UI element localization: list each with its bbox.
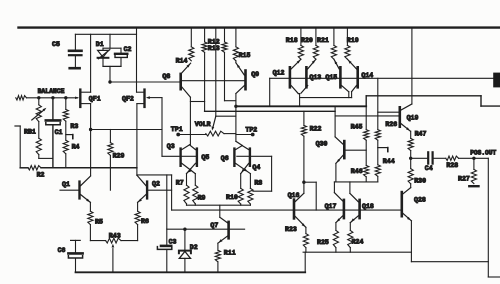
resistor R20 [315, 28, 317, 46]
wire: Q8 collector node to R12 [190, 101, 204, 103]
wire: drop to ground bus [304, 252, 306, 271]
capacitor C1 [52, 98, 54, 119]
svg-text:C5: C5 [52, 41, 60, 48]
svg-text:Q7: Q7 [210, 222, 218, 229]
resistor R3 [65, 98, 67, 110]
wire: Q2 collector lateral wire [137, 174, 172, 176]
resistor R6 [137, 202, 139, 211]
wire: Q28 emitter down and right [410, 221, 412, 262]
svg-text:R24: R24 [352, 239, 364, 246]
capacitor C4 [427, 152, 429, 163]
test point TP2 [251, 133, 255, 137]
wire: Q17 collector column [333, 182, 335, 193]
capacitor C3 [166, 229, 168, 245]
svg-text:RB1: RB1 [24, 128, 36, 135]
svg-text:R28: R28 [446, 162, 458, 169]
resistor R28 [446, 156, 459, 160]
wire: rail drop to Q19 collector [411, 28, 413, 104]
wire: Q12/Q13 collector join [298, 93, 299, 95]
svg-text:C2: C2 [124, 46, 132, 53]
svg-text:Q19: Q19 [407, 115, 419, 122]
tap mark below R3 [66, 134, 73, 136]
transistor Q9 [244, 71, 247, 90]
svg-text:R25: R25 [317, 239, 329, 246]
wire: horizontal supply branch y34 [75, 33, 136, 35]
svg-text:R30: R30 [414, 178, 426, 185]
resistor R5 [89, 202, 91, 211]
transistor Q1 [78, 182, 80, 199]
transistor QF2 [143, 90, 145, 107]
resistor R2 inline on lower-left bus [20, 167, 28, 169]
wire: Q8/Q9 base link [182, 80, 244, 82]
wire: QF1-source to QF2-gate link [91, 129, 162, 131]
svg-text:Q9: Q9 [251, 71, 259, 78]
transistor Q19 [398, 107, 401, 126]
svg-text:Q4: Q4 [252, 164, 260, 171]
svg-text:Q13: Q13 [309, 74, 321, 81]
resistor R45 [364, 130, 369, 141]
svg-text:R10: R10 [226, 194, 238, 201]
transistor Q5 [196, 149, 198, 166]
resistor R18 [300, 28, 302, 46]
wire: quad base rail to output feedback [270, 77, 494, 79]
svg-text:Q28: Q28 [414, 197, 426, 204]
wire: collector link line [300, 97, 352, 99]
svg-text:POS.OUT: POS.OUT [470, 149, 496, 156]
transistor Q12 [289, 67, 292, 87]
svg-text:R23: R23 [285, 226, 297, 233]
node: R3 tap [64, 96, 67, 99]
svg-text:R27: R27 [458, 175, 470, 182]
resistor R13 [224, 28, 226, 42]
resistor R26 [377, 78, 379, 129]
potentiometer R43 [90, 240, 105, 242]
transistor Q18 [358, 200, 361, 218]
svg-text:R6: R6 [141, 218, 149, 225]
wire: Q19 base line [335, 115, 398, 117]
svg-text:R7: R7 [176, 179, 184, 186]
svg-text:QF1: QF1 [89, 96, 101, 103]
wire: Q4 base feed from right [251, 155, 272, 157]
capacitor C6 [71, 239, 81, 241]
svg-text:D2: D2 [190, 244, 198, 251]
resistor R8 [249, 174, 251, 189]
transistor Q7 [227, 222, 230, 238]
test point TP1 [176, 133, 180, 137]
resistor R15 [235, 28, 237, 47]
resistor R19 [346, 28, 348, 46]
svg-text:R43: R43 [109, 232, 121, 239]
wire: predriver base bus [172, 209, 401, 211]
wire: to POS.OUT corner [459, 157, 489, 159]
svg-text:Q17: Q17 [325, 203, 337, 210]
svg-text:Q8: Q8 [162, 73, 170, 80]
wire: RB1 bottom to C1 column [39, 157, 53, 159]
wire: Q8 base wire [110, 81, 180, 83]
node: RB1 tap [37, 96, 40, 99]
svg-text:R8: R8 [254, 179, 262, 186]
transistor Q8 [179, 74, 182, 89]
svg-text:R20: R20 [301, 37, 313, 44]
capacitor C2 [120, 48, 122, 52]
svg-text:R19: R19 [347, 37, 359, 44]
transistor Q13 [305, 67, 308, 87]
resistor R11 [217, 243, 219, 250]
wire: QF1 source down [90, 104, 92, 176]
svg-text:Q30: Q30 [316, 141, 328, 148]
svg-text:QF2: QF2 [122, 96, 134, 103]
svg-text:C3: C3 [169, 239, 177, 246]
transistor Q2 [146, 182, 148, 199]
svg-text:R29: R29 [113, 153, 125, 160]
node: main bus start [234, 105, 237, 108]
transistor Q4 [249, 149, 251, 166]
node: D1 bottom / Q8 base junction [108, 80, 111, 83]
wire: output feed to C4 [411, 157, 427, 159]
wire: drop to Q16 base bus [171, 175, 173, 210]
svg-text:Q12: Q12 [273, 70, 285, 77]
transistor Q28 [400, 192, 403, 216]
svg-text:R26: R26 [385, 121, 397, 128]
wire: R26 column to Q19 base [378, 111, 399, 113]
svg-text:R9: R9 [198, 195, 206, 202]
wire: QF1 drain to supply branch [90, 34, 92, 92]
svg-text:Q5: Q5 [201, 154, 209, 161]
wire: Q12 base drop to bus [269, 78, 271, 106]
svg-text:Q18: Q18 [362, 203, 374, 210]
svg-text:R44: R44 [383, 158, 395, 165]
svg-text:C1: C1 [55, 129, 63, 136]
svg-text:VOLR: VOLR [195, 121, 211, 128]
node: output node [409, 157, 412, 160]
svg-text:R21: R21 [317, 37, 329, 44]
tap mark near R44 [378, 147, 388, 149]
svg-text:R47: R47 [415, 130, 427, 137]
transistor QF1 [79, 90, 81, 107]
resistor R47 [410, 131, 412, 138]
ground bar below R27 [469, 185, 478, 187]
node: R22/Q16 collector [302, 181, 305, 184]
svg-text:R18: R18 [286, 37, 298, 44]
wire: Q14 collector drop [351, 92, 353, 98]
resistor R14 [190, 28, 192, 47]
node: QF1 source / R29 wire [89, 128, 92, 131]
svg-text:C6: C6 [58, 247, 66, 254]
connector pad at right edge [493, 73, 500, 88]
diode D1 [103, 47, 121, 49]
resistor R4 [63, 140, 68, 154]
svg-text:R2: R2 [37, 172, 45, 179]
wire: emitter resistor bus [187, 204, 251, 206]
svg-text:R46: R46 [351, 168, 363, 175]
transistor Q30 [343, 141, 346, 158]
wire: balance wire to QF1 gate [27, 97, 78, 99]
svg-text:R5: R5 [95, 218, 103, 225]
resistor R12 [204, 28, 206, 42]
svg-text:TP1: TP1 [171, 126, 183, 133]
transistor Q15 [339, 67, 342, 87]
wire: output right-edge drop [487, 158, 489, 277]
svg-text:Q3: Q3 [167, 143, 175, 150]
svg-text:Q6: Q6 [221, 155, 229, 162]
wire: drop to C3/D2 node [166, 175, 168, 229]
wire: bus center tap to Q7 [219, 205, 221, 217]
svg-text:R3: R3 [70, 123, 78, 130]
wire: QF2 gate column [148, 97, 162, 99]
wire: QF2 source down [136, 104, 138, 176]
svg-text:Q15: Q15 [325, 74, 337, 81]
wire: main negative bus [236, 105, 366, 107]
resistor: input series squiggle [16, 96, 27, 100]
svg-text:Q1: Q1 [62, 181, 70, 188]
wire: stepped bus to right edge [366, 95, 481, 97]
resistor R30 [410, 158, 412, 168]
svg-text:R22: R22 [310, 126, 322, 133]
node: D2 tap [183, 228, 186, 231]
resistor R9 [194, 174, 196, 186]
wire: bus drop to Q30 collector [334, 106, 336, 137]
wire: Q18 collector column [349, 182, 351, 194]
wire: VOLR wiper column from rail [215, 28, 217, 117]
wire: Q9 collector column [235, 94, 237, 142]
wire: Q30 emitter drop [335, 163, 337, 182]
wire: driver emitter bus [334, 181, 377, 183]
wire: Q15 collector drop [348, 92, 350, 98]
wire: emitter resistor return line [303, 251, 411, 253]
resistor R10 [240, 174, 242, 189]
svg-text:D1: D1 [96, 41, 104, 48]
svg-text:R45: R45 [351, 123, 363, 130]
transistor Q14 [356, 67, 359, 87]
svg-text:C4: C4 [425, 165, 433, 172]
wire: second bus (Q8 collector rail) [205, 110, 336, 112]
svg-text:TP2: TP2 [245, 126, 257, 133]
resistor R24 [349, 223, 351, 231]
resistor R7 [186, 174, 188, 186]
resistor R44 [375, 165, 380, 177]
svg-text:R4: R4 [72, 144, 80, 151]
potentiometer VOLR [206, 131, 224, 136]
wire: C3/D2/Q7 base wire [167, 228, 245, 230]
wire: bottom ground bus [76, 271, 306, 273]
wire: Q8 collector down-column to Q3/Q5 [189, 97, 191, 145]
wire: R45/R46 column [365, 106, 367, 129]
transistor Q16 [293, 200, 296, 219]
wire: Q16 collector loop [304, 181, 316, 183]
svg-text:R15: R15 [239, 52, 251, 59]
svg-text:Q16: Q16 [288, 192, 300, 199]
wire: RB1 wiper return vertical [15, 125, 20, 127]
wire: +V power rail [19, 26, 500, 28]
capacitor C5 [74, 34, 76, 49]
transistor Q6 [233, 149, 235, 166]
svg-text:BALANCE: BALANCE [38, 88, 65, 95]
wire: D1/C2 midpoint column [109, 34, 111, 48]
resistor R21 [333, 28, 335, 46]
node: R27 tap [472, 157, 475, 160]
zener diode D2 [184, 229, 186, 250]
resistor R22 [303, 111, 305, 125]
svg-text:Q2: Q2 [152, 180, 160, 187]
svg-text:R11: R11 [224, 250, 236, 257]
potentiometer RB1 [38, 98, 40, 105]
resistor R29 [109, 130, 111, 143]
resistor R23 [305, 227, 307, 233]
resistor R46 [364, 165, 369, 176]
svg-text:R13: R13 [208, 45, 220, 52]
resistor R25 [335, 223, 337, 231]
wire: feed from rail to C5/D1 node [136, 28, 138, 93]
transistor Q3 [179, 149, 181, 166]
svg-text:R14: R14 [176, 57, 188, 64]
node: C1 tap [51, 96, 54, 99]
transistor Q17 [343, 200, 346, 218]
resistor R27 [473, 158, 475, 169]
ground bar below C5 [70, 67, 80, 70]
